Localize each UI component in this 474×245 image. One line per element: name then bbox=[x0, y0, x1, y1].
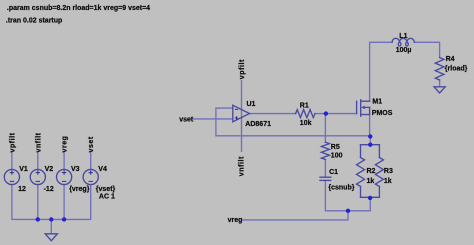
svg-text:vreg: vreg bbox=[62, 136, 69, 153]
svg-text:R5: R5 bbox=[331, 144, 340, 151]
svg-text:M1: M1 bbox=[372, 99, 382, 106]
svg-text:-12: -12 bbox=[44, 186, 54, 193]
svg-text:R4: R4 bbox=[446, 56, 455, 63]
svg-text:{vreg}: {vreg} bbox=[69, 186, 90, 193]
svg-text:R3: R3 bbox=[384, 168, 393, 175]
svg-text:vpfilt: vpfilt bbox=[9, 132, 16, 152]
svg-text:PMOS: PMOS bbox=[372, 110, 393, 117]
svg-text:100: 100 bbox=[331, 152, 343, 159]
svg-text:1k: 1k bbox=[367, 178, 375, 185]
svg-text:10k: 10k bbox=[300, 120, 312, 127]
svg-text:U1: U1 bbox=[247, 101, 256, 108]
svg-text:V4: V4 bbox=[98, 166, 107, 173]
svg-text:vpfilt: vpfilt bbox=[239, 59, 246, 79]
svg-text:AD8671: AD8671 bbox=[245, 121, 271, 128]
svg-text:vset: vset bbox=[179, 117, 194, 124]
svg-text:vnfilt: vnfilt bbox=[239, 156, 246, 176]
svg-text:{rload}: {rload} bbox=[445, 65, 468, 72]
svg-text:V3: V3 bbox=[71, 166, 80, 173]
svg-text:.param csnub=8.2n rload=1k vre: .param csnub=8.2n rload=1k vreg=9 vset=4 bbox=[7, 5, 150, 12]
svg-text:1k: 1k bbox=[384, 178, 392, 185]
svg-text:12: 12 bbox=[18, 186, 26, 193]
svg-text:C1: C1 bbox=[329, 169, 338, 176]
svg-text:R1: R1 bbox=[300, 102, 309, 109]
svg-text:R2: R2 bbox=[367, 168, 376, 175]
svg-text:L1: L1 bbox=[399, 33, 407, 40]
svg-text:vset: vset bbox=[88, 136, 95, 152]
svg-text:100µ: 100µ bbox=[396, 47, 412, 54]
svg-text:.tran 0.02 startup: .tran 0.02 startup bbox=[6, 17, 62, 24]
svg-text:vnfilt: vnfilt bbox=[35, 132, 42, 152]
svg-text:AC 1: AC 1 bbox=[99, 194, 115, 201]
svg-text:{csnub}: {csnub} bbox=[328, 185, 354, 192]
svg-text:V2: V2 bbox=[45, 166, 54, 173]
svg-text:vreg: vreg bbox=[228, 217, 243, 224]
svg-text:V1: V1 bbox=[19, 166, 28, 173]
svg-text:{vset}: {vset} bbox=[96, 186, 116, 193]
